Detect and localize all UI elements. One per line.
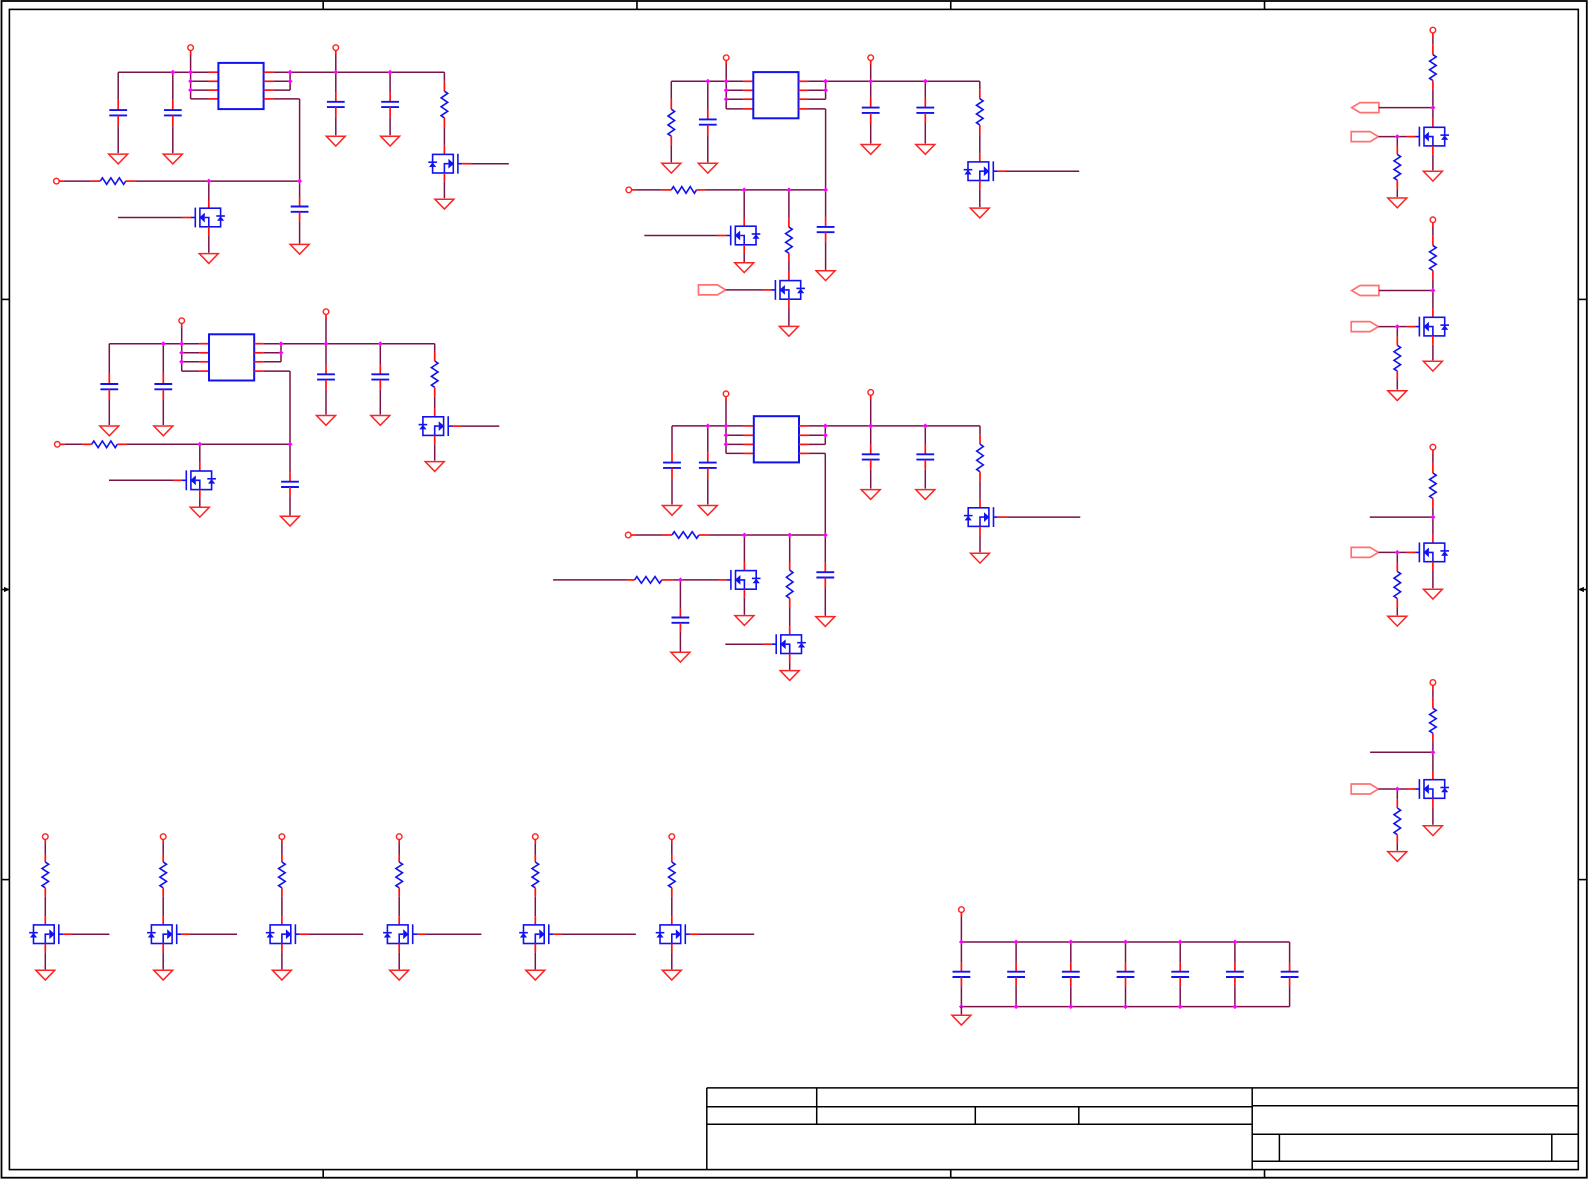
node CB top j3 bbox=[1068, 940, 1073, 945]
wire U2 left bus bbox=[671, 80, 726, 82]
wire RC3 Rg bottom bbox=[1396, 607, 1398, 615]
wire RC1 source bbox=[1432, 155, 1434, 171]
wire U3 C3 bottom bbox=[325, 390, 327, 415]
wire U3 input a bbox=[65, 443, 83, 445]
capacitor U4 Cg bbox=[672, 618, 690, 623]
wire U1 input a bbox=[64, 180, 91, 182]
transistor RC2 Q bbox=[1415, 317, 1449, 337]
power pin U3 VIN1 bbox=[179, 318, 185, 328]
ground RC2 Rg bbox=[1388, 391, 1407, 401]
ground U4 C2 bbox=[698, 506, 717, 516]
resistor U3 Rout bbox=[431, 361, 438, 387]
node U1 j10 bbox=[297, 179, 302, 184]
resistor U4 Rout bbox=[977, 444, 984, 472]
wire U1 pinC link bbox=[273, 89, 290, 91]
resistor RC3 Rg bbox=[1394, 571, 1401, 598]
ground B1 Q bbox=[36, 970, 55, 980]
wire U2 Q1 source bbox=[979, 189, 981, 207]
node U1 j2 bbox=[188, 70, 193, 75]
node U4 j8 bbox=[923, 423, 928, 428]
wire U3 Q2 source bbox=[199, 498, 201, 506]
wire B4 mid bbox=[398, 897, 400, 917]
regulator IC U3 U bbox=[209, 334, 254, 380]
transistor U4 Q1 bbox=[964, 507, 998, 527]
node U4 j4 bbox=[724, 442, 729, 447]
wire B1 mid bbox=[44, 897, 46, 917]
transistor RC3 Q bbox=[1415, 543, 1449, 563]
node U1 j7 bbox=[333, 70, 338, 75]
ground B3 Q bbox=[272, 970, 291, 980]
resistor B5 Rd bbox=[532, 862, 539, 888]
wire RC4 mid bbox=[1432, 742, 1434, 752]
wire U4 M2 gate bbox=[725, 643, 763, 645]
wire U3 pinD vertical bbox=[289, 371, 291, 444]
frame tick top 2 bbox=[636, 1, 638, 9]
wire B5 gate bbox=[562, 933, 636, 935]
capacitor CB C3 bbox=[1062, 972, 1080, 977]
wire U3 C2 top bbox=[162, 344, 164, 374]
ground U2 M2 bbox=[779, 326, 798, 336]
transistor B1 Q bbox=[29, 924, 63, 944]
wire CB C2 top bbox=[1015, 942, 1017, 963]
ground U3 C4 bbox=[371, 416, 390, 426]
wire U4 pinB vertical bbox=[824, 426, 826, 435]
wire U1 C1 bottom bbox=[117, 126, 119, 153]
wire U4 C3 top bbox=[870, 426, 872, 445]
wire U2 Rout to Q1 bbox=[979, 134, 981, 153]
wire U4 pinD link bbox=[809, 452, 826, 454]
ground U2 Q1 bbox=[970, 208, 989, 218]
resistor RC2 Rd bbox=[1430, 246, 1437, 271]
wire U3 pinB link bbox=[264, 352, 281, 354]
ground RC3 Rg bbox=[1388, 616, 1407, 626]
node U2 j4 bbox=[724, 97, 729, 102]
wire U1 VIN1 drop bbox=[190, 55, 192, 99]
node RC4 j2 bbox=[1395, 787, 1400, 792]
wire RC3 drain bbox=[1432, 517, 1434, 534]
wire U3 Q2 drop bbox=[199, 444, 201, 462]
input pin U4 bbox=[625, 532, 635, 538]
wire U3 pinC vertical bbox=[280, 353, 282, 362]
power pin B6 bbox=[669, 834, 675, 844]
wire U4 M1 gate bbox=[680, 579, 718, 581]
resistor U1 Rin bbox=[100, 178, 125, 185]
wire U3 C5 bottom bbox=[289, 497, 291, 516]
wire U2 left pin3 link bbox=[726, 98, 743, 100]
power pin U1 VIN2 bbox=[333, 45, 339, 55]
capacitor U4 C3 bbox=[862, 454, 880, 459]
pin stubs U1 right bbox=[264, 72, 274, 99]
frame tick bottom 2 bbox=[636, 1170, 638, 1178]
node RC3 j1 bbox=[1430, 515, 1435, 520]
wire U4 pin4 link bbox=[726, 452, 744, 454]
frame tick bottom 3 bbox=[950, 1170, 952, 1178]
wire U1 C2 top bbox=[172, 72, 174, 100]
pin stubs U4 left bbox=[744, 426, 754, 454]
regulator IC U1 U bbox=[218, 63, 263, 109]
transistor U3 Q2 bbox=[182, 470, 216, 490]
node U2 j11 bbox=[823, 187, 828, 192]
wire CB C6 top bbox=[1234, 942, 1236, 963]
node RC1 j2 bbox=[1395, 134, 1400, 139]
transistor U4 M1 bbox=[727, 570, 761, 590]
node U4 j7 bbox=[868, 423, 873, 428]
wire U1 C2 bottom bbox=[172, 126, 174, 153]
wire U2 pinD vertical bbox=[825, 109, 827, 190]
wire U3 C1 bottom bbox=[108, 400, 110, 425]
transistor U1 Q2 bbox=[191, 208, 225, 228]
node U1 j5 bbox=[288, 70, 293, 75]
wire U4 Cg drop bbox=[679, 580, 681, 609]
transistor U4 M2 bbox=[772, 634, 806, 654]
wire RC4 gate bbox=[1397, 788, 1406, 790]
node U4 j1 bbox=[705, 423, 710, 428]
ground RC4 Q bbox=[1423, 826, 1442, 836]
node U4 j5 bbox=[823, 423, 828, 428]
wire RC4 top bbox=[1432, 690, 1434, 698]
power pin U4 VIN1 bbox=[723, 391, 729, 401]
wire U4 C5 drop bbox=[824, 535, 826, 563]
transistor U3 Q1 bbox=[419, 416, 453, 436]
power pin B2 bbox=[160, 834, 166, 844]
wire RC1 mid bbox=[1432, 89, 1434, 107]
wire U4 VIN2 drop bbox=[870, 400, 872, 426]
wire RC4 Rg top bbox=[1396, 789, 1398, 799]
wire U4 Rout to Q1 bbox=[979, 481, 981, 499]
frame tick right 2 bbox=[1578, 879, 1587, 881]
resistor RC1 Rd bbox=[1430, 55, 1437, 81]
node CB top j2 bbox=[1014, 940, 1019, 945]
wire U4 input a bbox=[636, 534, 663, 536]
frame tick top 4 bbox=[1264, 1, 1266, 9]
transistor U1 Q1 bbox=[428, 154, 462, 174]
wire B2 gate bbox=[190, 933, 237, 935]
wire U3 right bus bbox=[264, 343, 435, 345]
pin stubs U1 left bbox=[209, 72, 219, 99]
power pin U2 VIN2 bbox=[868, 55, 874, 65]
ground U2 M1 bbox=[735, 263, 754, 273]
wire RC3 tap bbox=[1370, 516, 1433, 518]
wire U2 C4 bottom bbox=[924, 123, 926, 144]
wire U4 C2 bottom bbox=[707, 479, 709, 505]
frame tick left 2 bbox=[2, 879, 10, 881]
input pin U3 bbox=[55, 442, 65, 448]
wire U4 M2 source bbox=[789, 662, 791, 670]
frame arrow left bbox=[2, 587, 11, 592]
power pin B3 bbox=[279, 834, 285, 844]
wire CB C5 top bbox=[1179, 942, 1181, 963]
wire RC1 drain bbox=[1432, 108, 1434, 119]
wire RC3 mid bbox=[1432, 507, 1434, 517]
node U2 j9 bbox=[742, 187, 747, 192]
wire U3 pinB vertical bbox=[280, 344, 282, 353]
node U4 j11 bbox=[823, 533, 828, 538]
ground RC2 Q bbox=[1423, 361, 1442, 371]
ground U1 Q2 bbox=[199, 254, 218, 264]
wire U4 Rout drop bbox=[979, 426, 981, 435]
wire U1 C1 top bbox=[117, 72, 119, 100]
transistor B4 Q bbox=[383, 924, 417, 944]
node U2 j5 bbox=[823, 79, 828, 84]
wire U2 Rout drop bbox=[979, 81, 981, 89]
wire CB C4 top bbox=[1125, 942, 1127, 963]
wire B6 source bbox=[671, 952, 673, 969]
wire RC1 Rg top bbox=[1396, 137, 1398, 146]
node CB bottom j1 bbox=[959, 1004, 964, 1009]
wire U1 Q2 source bbox=[208, 236, 210, 253]
wire U1 pinB vertical bbox=[289, 72, 291, 81]
capacitor U1 C3 bbox=[327, 102, 345, 107]
capacitor U3 C3 bbox=[317, 374, 335, 379]
wire RC4 gate in bbox=[1378, 788, 1397, 790]
wire RC3 source bbox=[1432, 571, 1434, 589]
wire U2 pinD link bbox=[808, 108, 826, 110]
capacitor U1 C2 bbox=[164, 110, 182, 115]
wire RC2 gate in bbox=[1378, 326, 1397, 328]
wire U4 R2 to M2 bbox=[789, 607, 791, 626]
wire U3 Rout drop bbox=[434, 344, 436, 352]
wire U2 R2 to M2 bbox=[788, 262, 790, 272]
wire U3 Rout to Q1 bbox=[434, 397, 436, 408]
title block outline bbox=[707, 1088, 1579, 1170]
wire U4 left pin3 link bbox=[726, 443, 744, 445]
resistor U2 Rin bbox=[671, 187, 696, 194]
wire U3 Q1 source bbox=[434, 444, 436, 460]
wire U1 Q1 gate bbox=[471, 163, 509, 165]
transistor RC1 Q bbox=[1415, 127, 1449, 147]
wire U4 left pin2 link bbox=[726, 434, 744, 436]
node U3 j6 bbox=[279, 350, 284, 355]
node U4 j10 bbox=[787, 533, 792, 538]
node RC2 j1 bbox=[1430, 288, 1435, 293]
wire U3 input bus bbox=[127, 443, 290, 445]
wire RC4 source bbox=[1432, 807, 1434, 825]
node U3 j5 bbox=[279, 341, 284, 346]
ground U4 M2 bbox=[780, 671, 799, 681]
transistor B2 Q bbox=[147, 924, 181, 944]
wire U4 pinC link bbox=[809, 443, 826, 445]
wire B2 mid bbox=[162, 897, 164, 917]
wire U2 C2 bottom bbox=[707, 135, 709, 162]
capacitor U4 C1 bbox=[663, 463, 681, 468]
wire RC4 Rg bottom bbox=[1396, 844, 1398, 851]
wire RC4 tap bbox=[1370, 751, 1433, 753]
wire RC2 source bbox=[1432, 345, 1434, 361]
transistor B5 Q bbox=[519, 924, 553, 944]
node CB bottom j4 bbox=[1123, 1004, 1128, 1009]
wire U2 C5 drop bbox=[825, 190, 827, 218]
ground U2 C5 bbox=[816, 271, 835, 281]
transistor B3 Q bbox=[266, 924, 300, 944]
wire U1 C4 top bbox=[389, 72, 391, 92]
power pin U3 VIN2 bbox=[323, 309, 329, 319]
wire RC2 tap bbox=[1379, 290, 1433, 292]
wire U3 pin4 link bbox=[182, 370, 199, 372]
wire B3 top bbox=[281, 844, 283, 855]
node U4 j9 bbox=[742, 533, 747, 538]
transistor U2 M1 bbox=[726, 226, 760, 246]
frame tick bottom 4 bbox=[1264, 1170, 1266, 1178]
ground U3 C5 bbox=[281, 516, 300, 526]
wire U4 left bus bbox=[672, 425, 726, 427]
ground U1 C3 bbox=[326, 136, 345, 146]
node U3 j1 bbox=[161, 341, 166, 346]
wire U3 pinC link bbox=[264, 361, 281, 363]
wire U2 Q1 gate bbox=[1007, 170, 1080, 172]
capacitor U3 C2 bbox=[154, 384, 172, 389]
wire U2 R2 drop bbox=[788, 190, 790, 218]
pin stubs U4 right bbox=[799, 426, 809, 454]
wire U1 C5 drop bbox=[299, 181, 301, 197]
wire U4 C2 top bbox=[707, 426, 709, 452]
wire B1 gate bbox=[72, 933, 109, 935]
wire RC1 tap bbox=[1379, 107, 1433, 109]
wire U1 left pin3 link bbox=[191, 89, 209, 91]
ground U1 C2 bbox=[163, 154, 182, 164]
wire U4 left pin1 link bbox=[726, 425, 744, 427]
ground U4 Cg bbox=[671, 652, 690, 662]
frame tick top 1 bbox=[322, 1, 324, 9]
wire RC1 Rg bottom bbox=[1396, 189, 1398, 197]
frame tick right 1 bbox=[1578, 298, 1587, 300]
wire B3 mid bbox=[281, 897, 283, 917]
wire B3 gate bbox=[309, 933, 364, 935]
ground B2 Q bbox=[154, 970, 173, 980]
resistor B3 Rd bbox=[279, 862, 286, 888]
wire CB C1 top bbox=[960, 942, 962, 963]
wire B2 source bbox=[162, 952, 164, 969]
wire CB C5 bottom bbox=[1179, 986, 1181, 1006]
ground RC1 Q bbox=[1423, 171, 1442, 181]
resistor B1 Rd bbox=[42, 862, 49, 888]
wire U1 input bus bbox=[135, 180, 299, 182]
capacitor U1 C5 bbox=[291, 207, 309, 212]
wire CB feed bbox=[960, 917, 962, 942]
capacitor CB C1 bbox=[953, 972, 971, 977]
wire B3 source bbox=[281, 952, 283, 969]
wire U2 C5 bottom bbox=[825, 242, 827, 270]
wire U3 left pin1 link bbox=[182, 343, 199, 345]
pin stubs U2 left bbox=[743, 81, 753, 109]
wire CB gnd stem bbox=[960, 1007, 962, 1015]
port RC2 in bbox=[1351, 322, 1378, 332]
wire U2 C2 top bbox=[707, 81, 709, 109]
wire U4 gate line b bbox=[673, 579, 681, 581]
wire U4 M1 source bbox=[743, 598, 745, 615]
wire U1 right bus bbox=[273, 71, 444, 73]
resistor B4 Rd bbox=[396, 862, 403, 888]
transistor U2 M2 bbox=[771, 280, 805, 300]
node CB bottom j2 bbox=[1014, 1004, 1019, 1009]
wire RC2 Rg top bbox=[1396, 327, 1398, 337]
regulator IC U2 U bbox=[753, 72, 798, 118]
capacitor CB C7 bbox=[1281, 972, 1299, 977]
wire U2 M1 source bbox=[743, 254, 745, 263]
wire B6 top bbox=[671, 844, 673, 855]
wire U3 VIN1 drop bbox=[181, 328, 183, 371]
wire U3 C4 top bbox=[379, 344, 381, 365]
power pin RC4 bbox=[1430, 680, 1436, 690]
node U1 j3 bbox=[188, 79, 193, 84]
pin stubs U2 right bbox=[799, 81, 809, 109]
ground U3 C3 bbox=[317, 416, 336, 426]
ground U2 C4 bbox=[916, 145, 935, 155]
node U3 j2 bbox=[179, 341, 184, 346]
resistor RC1 Rg bbox=[1394, 154, 1401, 180]
ground RC1 Rg bbox=[1388, 198, 1407, 208]
node U2 j6 bbox=[823, 88, 828, 93]
node CB top j6 bbox=[1232, 940, 1237, 945]
wire B6 gate bbox=[699, 933, 755, 935]
wire B1 source bbox=[44, 952, 46, 969]
wire U4 Q1 gate bbox=[1007, 516, 1081, 518]
ground U2 C2 bbox=[698, 163, 717, 173]
power pin U2 VIN1 bbox=[723, 55, 729, 65]
wire U4 pinB link bbox=[809, 434, 826, 436]
node U4 j2 bbox=[724, 423, 729, 428]
wire U1 pinC vertical bbox=[289, 81, 291, 90]
wire U4 C3 bottom bbox=[870, 470, 872, 489]
wire U4 Cg bottom bbox=[679, 632, 681, 652]
wire RC3 top bbox=[1432, 454, 1434, 462]
wire U3 C2 bottom bbox=[162, 400, 164, 425]
node U3 j9 bbox=[197, 442, 202, 447]
wire RC2 top bbox=[1432, 227, 1434, 235]
wire U2 right bus bbox=[808, 80, 980, 82]
node U3 j7 bbox=[324, 341, 329, 346]
wire U3 left pin2 link bbox=[182, 352, 199, 354]
wire CB bottom bus bbox=[961, 1006, 1289, 1008]
wire B6 mid bbox=[671, 897, 673, 917]
ground B5 Q bbox=[526, 970, 545, 980]
resistor U3 Rin bbox=[92, 441, 118, 448]
wire U2 left pin2 link bbox=[726, 89, 743, 91]
wire U2 R1 bottom bbox=[670, 145, 672, 162]
wire RC1 top bbox=[1432, 37, 1434, 44]
wire U4 input bus bbox=[708, 534, 825, 536]
frame tick left 1 bbox=[2, 298, 10, 300]
wire U3 C1 top bbox=[108, 344, 110, 374]
node RC2 j2 bbox=[1395, 324, 1400, 329]
node CB top j4 bbox=[1123, 940, 1128, 945]
wire U1 Q2 gate bbox=[118, 217, 182, 219]
wire U4 C4 bottom bbox=[924, 470, 926, 489]
wire RC3 gate bbox=[1397, 551, 1406, 553]
resistor U1 Rout bbox=[441, 91, 448, 118]
wire U4 VIN1 drop bbox=[725, 401, 727, 453]
node U3 j8 bbox=[378, 341, 383, 346]
port U2 M2 gate bbox=[699, 285, 726, 295]
resistor U2 Rout bbox=[977, 99, 984, 125]
wire B4 gate bbox=[426, 933, 482, 935]
node U1 j9 bbox=[206, 179, 211, 184]
ground U1 C5 bbox=[290, 244, 309, 254]
wire RC2 drain bbox=[1432, 291, 1434, 309]
node U4 j12 bbox=[678, 577, 683, 582]
node CB bottom j3 bbox=[1068, 1004, 1073, 1009]
wire CB C7 bottom bbox=[1289, 986, 1291, 1006]
port RC2 out bbox=[1352, 286, 1379, 296]
wire U2 VIN1 drop bbox=[725, 65, 727, 109]
wire CB C4 bottom bbox=[1125, 986, 1127, 1006]
wire CB C3 top bbox=[1070, 942, 1072, 963]
wire RC2 gate bbox=[1397, 326, 1406, 328]
transistor U2 Q1 bbox=[964, 161, 998, 181]
ground U3 C1 bbox=[100, 426, 119, 436]
ground U4 M1 bbox=[735, 616, 754, 626]
capacitor CB C6 bbox=[1226, 972, 1244, 977]
resistor RC3 Rd bbox=[1430, 473, 1437, 498]
